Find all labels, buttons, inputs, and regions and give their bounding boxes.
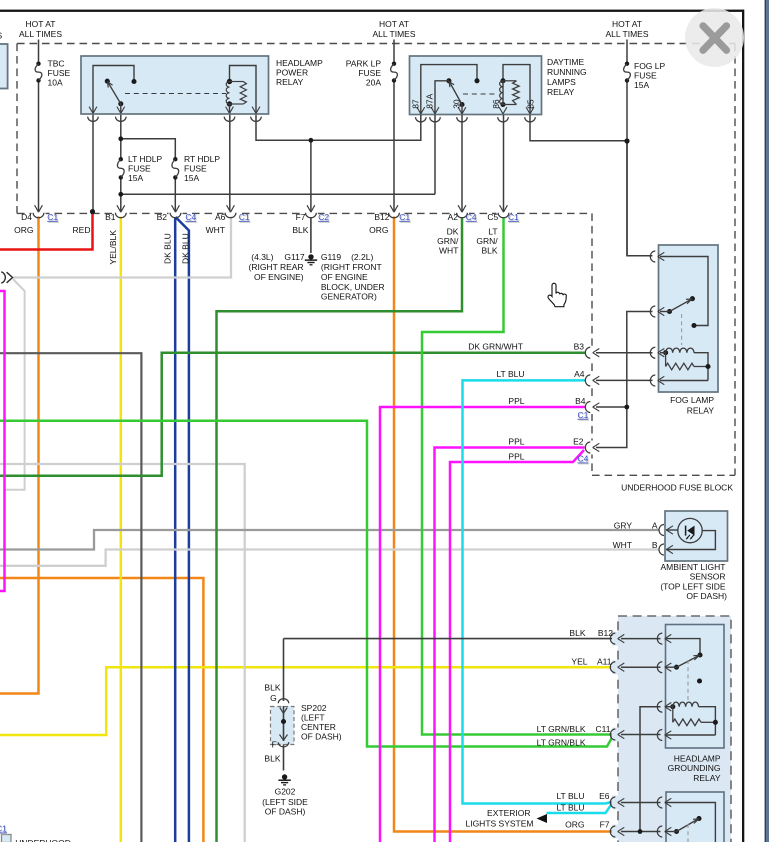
svg-text:30: 30 (451, 99, 461, 109)
svg-text:GRN/: GRN/ (437, 236, 459, 246)
svg-text:CENTER: CENTER (301, 722, 336, 732)
svg-text:BLK: BLK (264, 683, 280, 693)
svg-text:OF ENGINE): OF ENGINE) (254, 272, 304, 282)
svg-text:FOG LAMP: FOG LAMP (670, 395, 714, 405)
svg-text:TBC: TBC (48, 58, 65, 68)
svg-text:LT: LT (488, 226, 497, 236)
svg-text:G119: G119 (321, 252, 341, 262)
svg-text:B2: B2 (157, 212, 168, 222)
svg-text:FUSE: FUSE (128, 164, 151, 174)
svg-text:LT BLU: LT BLU (496, 369, 524, 379)
svg-text:BLK: BLK (569, 628, 585, 638)
svg-text:ALL TIMES: ALL TIMES (373, 29, 416, 39)
svg-text:AMBIENT LIGHT: AMBIENT LIGHT (660, 562, 725, 572)
svg-text:LAMPS: LAMPS (547, 77, 576, 87)
svg-text:FUSE: FUSE (48, 68, 71, 78)
svg-text:F7: F7 (600, 820, 610, 830)
svg-text:ORG: ORG (14, 225, 33, 235)
svg-text:DK BLU: DK BLU (163, 233, 173, 264)
svg-text:HOT AT: HOT AT (379, 19, 409, 29)
svg-text:PPL: PPL (508, 396, 524, 406)
svg-text:86: 86 (491, 99, 501, 109)
svg-text:F: F (272, 739, 277, 749)
svg-text:HOT AT: HOT AT (26, 19, 56, 29)
svg-text:GRN/: GRN/ (476, 236, 498, 246)
svg-text:20A: 20A (366, 77, 381, 87)
svg-text:GROUNDING: GROUNDING (668, 763, 721, 773)
svg-text:C4: C4 (578, 454, 589, 464)
svg-text:87: 87 (410, 99, 420, 109)
svg-text:G: G (270, 693, 277, 703)
svg-text:EXTERIOR: EXTERIOR (487, 808, 530, 818)
svg-text:10A: 10A (48, 77, 63, 87)
svg-text:C1: C1 (0, 824, 7, 834)
svg-text:RELAY: RELAY (693, 773, 721, 783)
svg-text:ORG: ORG (565, 820, 584, 830)
svg-text:B1: B1 (105, 212, 116, 222)
svg-text:DAYTIME: DAYTIME (547, 57, 584, 67)
svg-text:DK: DK (447, 226, 459, 236)
svg-text:E2: E2 (573, 436, 584, 446)
svg-text:C11: C11 (596, 724, 611, 734)
svg-text:RELAY: RELAY (276, 77, 304, 87)
svg-text:C1: C1 (47, 212, 58, 222)
svg-text:F7: F7 (296, 212, 306, 222)
svg-text:PPL: PPL (508, 436, 524, 446)
svg-text:WHT: WHT (439, 245, 458, 255)
svg-text:B3: B3 (574, 341, 585, 351)
svg-text:UNDERHOOD: UNDERHOOD (15, 838, 71, 842)
svg-text:C1: C1 (508, 212, 519, 222)
svg-text:PARK LP: PARK LP (346, 58, 382, 68)
svg-text:PPL: PPL (508, 451, 524, 461)
svg-text:B12: B12 (598, 628, 613, 638)
svg-text:B4: B4 (575, 396, 586, 406)
svg-text:G202: G202 (275, 787, 296, 797)
svg-text:BLK: BLK (482, 245, 498, 255)
svg-text:(TOP LEFT SIDE: (TOP LEFT SIDE (660, 581, 726, 591)
svg-text:C4: C4 (185, 212, 196, 222)
svg-text:S: S (0, 31, 3, 41)
svg-text:DK BLU: DK BLU (180, 233, 190, 264)
svg-text:HEADLAMP: HEADLAMP (276, 58, 323, 68)
svg-text:C1: C1 (578, 410, 589, 420)
svg-text:LT BLU: LT BLU (556, 803, 584, 813)
svg-text:(LEFT: (LEFT (301, 713, 325, 723)
svg-text:(RIGHT FRONT: (RIGHT FRONT (321, 262, 382, 272)
svg-text:UNDERHOOD FUSE BLOCK: UNDERHOOD FUSE BLOCK (621, 482, 733, 492)
svg-text:15A: 15A (184, 173, 199, 183)
svg-text:GENERATOR): GENERATOR) (321, 292, 377, 302)
svg-text:WHT: WHT (613, 540, 632, 550)
svg-text:OF DASH): OF DASH) (265, 807, 306, 817)
svg-text:A2: A2 (448, 212, 459, 222)
svg-text:A11: A11 (597, 656, 612, 666)
svg-text:HEADLAMP: HEADLAMP (674, 754, 721, 764)
svg-text:OF DASH): OF DASH) (686, 591, 727, 601)
svg-text:A: A (652, 521, 658, 531)
svg-text:LT GRN/BLK: LT GRN/BLK (537, 737, 586, 747)
svg-text:(2.2L): (2.2L) (351, 252, 373, 262)
svg-text:OF ENGINE: OF ENGINE (321, 272, 368, 282)
svg-text:SENSOR: SENSOR (690, 572, 726, 582)
svg-text:87A: 87A (425, 93, 435, 108)
svg-text:RELAY: RELAY (547, 87, 575, 97)
svg-text:LT BLU: LT BLU (556, 791, 584, 801)
svg-text:GRY: GRY (614, 521, 633, 531)
svg-text:BLK: BLK (264, 754, 280, 764)
svg-text:ALL TIMES: ALL TIMES (606, 29, 649, 39)
svg-text:D4: D4 (21, 212, 32, 222)
svg-text:(LEFT SIDE: (LEFT SIDE (262, 797, 308, 807)
svg-text:POWER: POWER (276, 67, 308, 77)
svg-text:B: B (652, 540, 658, 550)
svg-text:G117: G117 (284, 252, 304, 262)
svg-text:YEL: YEL (571, 656, 587, 666)
svg-text:LIGHTS SYSTEM: LIGHTS SYSTEM (465, 819, 533, 829)
svg-text:C5: C5 (487, 212, 498, 222)
svg-text:LT GRN/BLK: LT GRN/BLK (537, 724, 586, 734)
svg-text:SP202: SP202 (301, 703, 327, 713)
svg-text:RUNNING: RUNNING (547, 67, 587, 77)
svg-text:BLK: BLK (292, 225, 308, 235)
svg-text:FOG LP: FOG LP (634, 61, 666, 71)
svg-text:15A: 15A (634, 80, 649, 90)
svg-text:(RIGHT REAR: (RIGHT REAR (248, 262, 303, 272)
svg-text:B12: B12 (374, 212, 389, 222)
svg-text:(4.3L): (4.3L) (251, 252, 273, 262)
svg-text:FUSE: FUSE (184, 164, 207, 174)
svg-text:ALL TIMES: ALL TIMES (19, 29, 62, 39)
svg-text:LT HDLP: LT HDLP (128, 154, 163, 164)
svg-text:HOT AT: HOT AT (612, 19, 642, 29)
svg-text:OF DASH): OF DASH) (301, 732, 342, 742)
svg-text:15A: 15A (128, 173, 143, 183)
svg-text:RELAY: RELAY (687, 405, 715, 415)
svg-text:RED: RED (73, 225, 91, 235)
svg-text:E6: E6 (599, 791, 610, 801)
svg-text:ORG: ORG (369, 225, 388, 235)
svg-text:C2: C2 (318, 212, 329, 222)
svg-text:YEL/BLK: YEL/BLK (108, 230, 118, 265)
svg-text:RT HDLP: RT HDLP (184, 154, 220, 164)
svg-text:C1: C1 (239, 212, 250, 222)
svg-text:FUSE: FUSE (634, 70, 657, 80)
svg-text:85: 85 (526, 99, 536, 109)
svg-text:FUSE: FUSE (358, 68, 381, 78)
svg-text:A4: A4 (574, 369, 585, 379)
svg-text:BLOCK, UNDER: BLOCK, UNDER (321, 282, 385, 292)
svg-text:C1: C1 (399, 212, 410, 222)
svg-text:WHT: WHT (206, 225, 225, 235)
svg-text:C4: C4 (466, 212, 477, 222)
svg-text:DK GRN/WHT: DK GRN/WHT (468, 341, 523, 351)
svg-text:A6: A6 (215, 212, 226, 222)
